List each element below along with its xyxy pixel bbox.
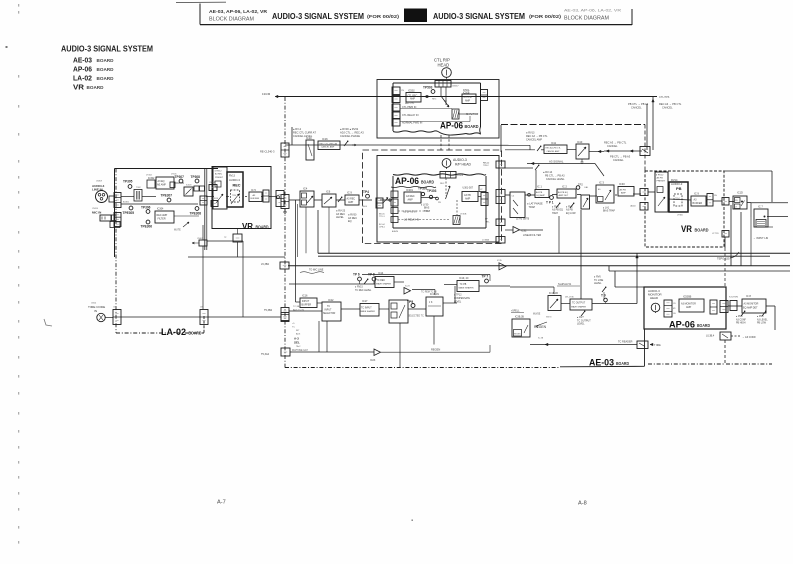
svg-text:IC33: IC33	[619, 182, 625, 186]
svg-text:REC CTL: REC CTL	[405, 103, 415, 105]
svg-text:T5,3A4: T5,3A4	[261, 353, 270, 356]
svg-text:BUFFER: BUFFER	[251, 198, 260, 200]
svg-text:TP303: TP303	[427, 189, 437, 193]
svg-text:BOARD: BOARD	[97, 58, 115, 63]
svg-text:IC 2B: IC 2B	[538, 338, 544, 340]
svg-text:PB LOW: PB LOW	[757, 323, 767, 325]
svg-text:WAVE SHAPER: WAVE SHAPER	[361, 310, 376, 313]
svg-text:REC: REC	[440, 183, 445, 185]
svg-text:MONITOR: MONITOR	[466, 112, 478, 116]
svg-text:IC302: IC302	[148, 177, 155, 180]
svg-text:EQ: EQ	[348, 220, 352, 223]
svg-text:BIAS: BIAS	[424, 207, 430, 210]
svg-text:CANCEL: CANCEL	[631, 106, 642, 110]
svg-text:PRESET: PRESET	[657, 181, 666, 183]
svg-text:IC23: IC23	[405, 286, 410, 288]
svg-text:CANCEL AMP: CANCEL AMP	[321, 146, 335, 149]
svg-text:PB HIGH: PB HIGH	[736, 323, 746, 325]
svg-text:A3E/M: A3E/M	[392, 230, 398, 233]
svg-text:IC22: IC22	[328, 298, 334, 302]
svg-text:TP308: TP308	[191, 175, 201, 179]
svg-text:AP-06: AP-06	[440, 120, 463, 131]
svg-text:R/P HEAD: R/P HEAD	[455, 163, 472, 167]
svg-text:LP306: LP306	[677, 215, 684, 217]
svg-text:EQ AMP: EQ AMP	[537, 194, 546, 197]
svg-text:BUFFER: BUFFER	[302, 303, 312, 306]
svg-text:SELECTED TC: SELECTED TC	[408, 316, 424, 318]
svg-text:TPB-2: TPB-2	[483, 165, 490, 167]
svg-text:IC501-: IC501-	[463, 90, 470, 92]
svg-text:IC 2: IC 2	[562, 185, 567, 189]
svg-text:LO RELAY IN: LO RELAY IN	[404, 219, 419, 222]
svg-text:VR: VR	[242, 221, 254, 231]
svg-text:REC: REC	[432, 99, 437, 101]
svg-text:REC A3 → PB CTL: REC A3 → PB CTL	[604, 141, 627, 145]
svg-text:CANCEL AMP: CANCEL AMP	[526, 138, 542, 141]
svg-text:LT30B: LT30B	[460, 214, 467, 216]
svg-text:IC 3: IC 3	[599, 181, 604, 185]
svg-text:REGEN: REGEN	[431, 348, 440, 352]
svg-text:AUDIO-3: AUDIO-3	[229, 178, 240, 182]
svg-text:A3 MONITOR: A3 MONITOR	[744, 303, 759, 306]
svg-text:BOARD: BOARD	[421, 180, 435, 185]
svg-text:AE AMP: AE AMP	[157, 184, 166, 187]
svg-text:TPE306: TPE306	[141, 225, 153, 229]
svg-text:A3 PB: A3 PB	[536, 191, 543, 194]
svg-text:AE-03, AP-06, LA-02, VR: AE-03, AP-06, LA-02, VR	[564, 9, 622, 13]
svg-text:J7305: J7305	[171, 174, 177, 176]
svg-text:T 9RE: T 9RE	[654, 344, 661, 347]
svg-text:● RV3: ● RV3	[757, 315, 764, 318]
svg-text:WAVE SHAPER: WAVE SHAPER	[459, 287, 475, 290]
svg-text:MU/TONE GAT: MU/TONE GAT	[292, 349, 308, 352]
svg-text:T5,3B4: T5,3B4	[264, 309, 273, 312]
svg-text:● RV8: ● RV8	[736, 315, 743, 318]
svg-text:IC3B,3B: IC3B,3B	[515, 316, 524, 319]
svg-text:T 9: T 9	[601, 294, 606, 298]
svg-text:IC16: IC16	[322, 137, 328, 141]
svg-text:TC: TC	[327, 306, 330, 308]
svg-text:CN309: CN309	[96, 181, 102, 183]
svg-text:TTD-1: TTD-1	[379, 216, 386, 218]
svg-text:● RV30 ● RV32: ● RV30 ● RV32	[340, 127, 359, 131]
svg-text:LEVEL: LEVEL	[577, 323, 585, 326]
svg-text:TP64: TP64	[232, 195, 236, 197]
svg-text:CTL PB: CTL PB	[464, 97, 472, 99]
svg-text:BOARD: BOARD	[616, 361, 630, 366]
svg-text:VR: VR	[73, 83, 85, 92]
svg-text:(FOR 00/02): (FOR 00/02)	[367, 14, 399, 20]
svg-text:BUFFER: BUFFER	[693, 202, 703, 205]
svg-text:EQ LOW: EQ LOW	[566, 212, 576, 215]
svg-text:TC OUTPUT: TC OUTPUT	[572, 303, 586, 305]
svg-text:EQ AMP DET: EQ AMP DET	[743, 306, 758, 309]
svg-text:J K: J K	[429, 301, 433, 304]
svg-text:LA-02: LA-02	[73, 74, 92, 83]
svg-text:A3 REC: A3 REC	[215, 173, 223, 176]
svg-text:LR30B: LR30B	[457, 175, 464, 177]
svg-text:U301-507: U301-507	[463, 187, 474, 190]
svg-text:K3 (TNP): K3 (TNP)	[729, 297, 738, 299]
svg-text:TP307: TP307	[175, 175, 185, 179]
svg-text:BOARD: BOARD	[465, 124, 480, 129]
svg-text:IC35: IC35	[497, 260, 502, 262]
svg-text:LEVEL: LEVEL	[594, 282, 602, 285]
svg-text:A3 SIGNAL: A3 SIGNAL	[549, 160, 564, 164]
svg-text:CPB-5: CPB-5	[379, 227, 386, 229]
svg-text:REGEN: REGEN	[534, 325, 547, 329]
svg-text:IC 9: IC 9	[694, 192, 699, 196]
svg-text:IC23: IC23	[370, 359, 376, 362]
svg-text:REC CTL+REC A3: REC CTL+REC A3	[320, 143, 338, 146]
svg-text:BOARD: BOARD	[697, 323, 711, 328]
svg-text:SEL: SEL	[294, 341, 300, 345]
svg-text:CANCEL AMP: CANCEL AMP	[547, 150, 560, 153]
svg-text:REC CTL CURR AT: REC CTL CURR AT	[293, 131, 316, 135]
svg-text:TC REC LEVEL: TC REC LEVEL	[355, 290, 372, 292]
svg-text:A3 CONF: A3 CONF	[736, 318, 747, 321]
svg-text:COMPENSATE: COMPENSATE	[454, 297, 470, 300]
svg-text:TP306: TP306	[141, 206, 151, 210]
svg-text:CTL REC: CTL REC	[408, 96, 418, 98]
svg-text:TRAP: TRAP	[529, 206, 536, 209]
svg-text:IN: IN	[94, 309, 97, 313]
svg-text:CANCEL: CANCEL	[607, 144, 618, 148]
svg-text:TP4: TP4	[363, 190, 369, 194]
svg-text:AMP: AMP	[348, 201, 354, 204]
svg-text:PB CTL → PB A3: PB CTL → PB A3	[628, 102, 649, 106]
svg-text:LA604: LA604	[630, 205, 635, 208]
svg-text:CTL/TP6: CTL/TP6	[659, 95, 670, 99]
svg-text:TC,3B4: TC,3B4	[293, 306, 301, 308]
svg-text:AUX: AUX	[296, 332, 301, 335]
svg-text:→ A3 CONF: → A3 CONF	[742, 336, 756, 339]
svg-text:AMP: AMP	[465, 99, 470, 102]
svg-text:SELECTOR: SELECTOR	[323, 313, 336, 315]
svg-text:CANCEL LEVEL: CANCEL LEVEL	[546, 178, 565, 181]
svg-text:L7,3B4: L7,3B4	[482, 240, 490, 242]
svg-text:● LY30: ● LY30	[421, 204, 429, 207]
svg-text:AP-06: AP-06	[73, 65, 92, 74]
svg-text:TPE305: TPE305	[123, 211, 135, 215]
svg-text:LINE IN: LINE IN	[92, 188, 103, 192]
svg-text:FILTER: FILTER	[158, 218, 166, 221]
svg-text:AUDIO-3 SIGNAL SYSTEM: AUDIO-3 SIGNAL SYSTEM	[61, 45, 153, 54]
svg-text:IC 1: IC 1	[537, 185, 542, 189]
svg-text:TR L: TR L	[485, 221, 491, 223]
svg-text:IC 8: IC 8	[746, 294, 751, 298]
svg-text:PB: PB	[676, 186, 682, 191]
svg-text:LP TP6: LP TP6	[712, 233, 719, 235]
svg-text:TO M/C LINE: TO M/C LINE	[309, 269, 324, 272]
svg-text:A3 PB: A3 PB	[657, 177, 664, 180]
svg-text:CANCEL: CANCEL	[662, 106, 673, 110]
svg-text:IC304: IC304	[157, 208, 164, 211]
svg-text:A-7: A-7	[217, 500, 226, 506]
svg-text:AUDIO-3 SIGNAL SYSTEM: AUDIO-3 SIGNAL SYSTEM	[272, 12, 364, 21]
svg-text:IC1D: IC1D	[737, 191, 743, 195]
svg-text:IC301: IC301	[406, 188, 413, 192]
svg-text:● LA1: ● LA1	[603, 207, 610, 210]
svg-text:IC16: IC16	[302, 294, 308, 298]
svg-text:IC19, 20: IC19, 20	[459, 277, 469, 280]
svg-text:BIAS TRAP: BIAS TRAP	[603, 210, 615, 213]
svg-text:LINEAR FIL TER: LINEAR FIL TER	[523, 234, 541, 237]
svg-text:PRESET: PRESET	[215, 177, 224, 179]
svg-text:TP305: TP305	[123, 180, 133, 184]
svg-text:SW 3: SW 3	[546, 317, 552, 319]
svg-text:BLOCK DIAGRAM: BLOCK DIAGRAM	[564, 16, 609, 22]
svg-text:● RV12: ● RV12	[656, 174, 664, 177]
svg-text:DE-1736: DE-1736	[565, 297, 574, 299]
svg-text:LA-02: LA-02	[161, 326, 186, 337]
svg-text:IC10: IC10	[306, 136, 312, 140]
svg-text:AMP: AMP	[410, 98, 415, 101]
svg-text:IC4: IC4	[303, 187, 308, 191]
svg-text:A3 LEVEL: A3 LEVEL	[757, 318, 768, 321]
svg-text:ADJ CTL → REC A3: ADJ CTL → REC A3	[340, 131, 364, 135]
svg-text:A3 MONITOR: A3 MONITOR	[681, 303, 696, 306]
svg-text:HEAD: HEAD	[650, 296, 658, 300]
svg-text:TC: TC	[292, 326, 295, 328]
svg-text:HEAD: HEAD	[438, 63, 450, 68]
svg-text:AUX TC IN: AUX TC IN	[293, 308, 304, 311]
svg-text:TestPoint 51: TestPoint 51	[558, 283, 572, 286]
svg-text:IC 5: IC 5	[251, 188, 256, 192]
svg-text:CANCEL: CANCEL	[613, 158, 624, 162]
svg-text:TRAP: TRAP	[424, 210, 431, 213]
svg-text:+5FELL: +5FELL	[511, 310, 520, 313]
svg-text:CN567: CN567	[452, 86, 459, 88]
svg-text:IC17: IC17	[362, 299, 368, 303]
svg-text:13U/M: 13U/M	[262, 92, 271, 96]
svg-text:TEPG 155: TEPG 155	[717, 257, 730, 261]
svg-text:IC1B,1B: IC1B,1B	[549, 292, 558, 295]
svg-text:AMP: AMP	[408, 198, 414, 201]
svg-text:IC303: IC303	[186, 185, 192, 187]
svg-text:→ INPUT LIN: → INPUT LIN	[753, 237, 768, 240]
svg-text:MU/SE: MU/SE	[533, 314, 541, 316]
svg-text:PB CTL → PB A3: PB CTL → PB A3	[610, 155, 631, 159]
svg-text:TC REC: TC REC	[377, 280, 386, 282]
svg-text:TP9: TP9	[407, 300, 413, 304]
svg-text:REC A3+PB CTL: REC A3+PB CTL	[546, 147, 562, 150]
svg-text:RE-CL340-3: RE-CL340-3	[260, 150, 275, 154]
svg-text:● RV-2: ● RV-2	[293, 127, 302, 131]
svg-text:TC PB: TC PB	[460, 284, 467, 286]
svg-text:TP64: TP64	[675, 198, 680, 200]
svg-text:M1: M1	[673, 308, 676, 310]
svg-text:BOARD: BOARD	[256, 225, 270, 230]
svg-text:CN304: CN304	[209, 182, 215, 184]
svg-text:CTL RELAY IN: CTL RELAY IN	[402, 114, 419, 117]
svg-text:IC 9: IC 9	[347, 191, 352, 195]
svg-text:BOARD: BOARD	[87, 85, 105, 90]
svg-text:TP 6: TP 6	[353, 273, 360, 277]
svg-text:VR: VR	[681, 224, 692, 234]
svg-text:AUDIO-3 SIGNAL SYSTEM: AUDIO-3 SIGNAL SYSTEM	[433, 12, 525, 21]
svg-text:● RV12: ● RV12	[215, 170, 223, 173]
svg-text:IC505B: IC505B	[683, 296, 692, 299]
svg-text:BOARD: BOARD	[695, 228, 710, 233]
svg-text:(FOR 00/02): (FOR 00/02)	[529, 14, 561, 20]
svg-text:AMP: AMP	[686, 306, 692, 309]
svg-text:CN305: CN305	[197, 238, 203, 240]
svg-text:TC READER: TC READER	[618, 341, 633, 344]
svg-text:AE-03, AP-06, LA-02, VR: AE-03, AP-06, LA-02, VR	[209, 9, 268, 14]
svg-text:BU306: BU306	[123, 202, 129, 204]
svg-text:WAVE SHAPER: WAVE SHAPER	[571, 305, 587, 308]
svg-text:L5,3B4: L5,3B4	[261, 263, 270, 266]
svg-text:IC32: IC32	[521, 229, 527, 233]
svg-text:REC: REC	[233, 184, 241, 188]
svg-text:HIGH: HIGH	[552, 212, 558, 215]
svg-text:A3 PB: A3 PB	[620, 189, 627, 192]
svg-text:AMP: AMP	[621, 192, 626, 195]
svg-text:RE04: RE04	[362, 206, 368, 208]
svg-text:MIC IN: MIC IN	[92, 210, 101, 214]
svg-text:IC1B,1N: IC1B,1N	[430, 293, 439, 296]
svg-text:A3 PB EQ: A3 PB EQ	[558, 191, 568, 194]
svg-text:LL-A3 3B/TB: LL-A3 3B/TB	[516, 218, 530, 221]
svg-text:NORMAL PWD IN: NORMAL PWD IN	[402, 122, 423, 125]
svg-text:A-8: A-8	[578, 501, 587, 507]
svg-text:CN BOB: CN BOB	[211, 198, 219, 200]
svg-text:TP 7: TP 7	[482, 275, 489, 279]
svg-text:BOARD: BOARD	[97, 76, 115, 81]
svg-text:BLOCK DIAGRAM: BLOCK DIAGRAM	[209, 16, 254, 22]
svg-text:TP503: TP503	[423, 86, 433, 90]
svg-text:REGEN: REGEN	[514, 333, 521, 335]
svg-text:AMP: AMP	[465, 197, 471, 200]
svg-text:AE-03: AE-03	[73, 56, 92, 65]
svg-text:BOARD: BOARD	[97, 67, 115, 72]
svg-text:TC INPUT: TC INPUT	[361, 308, 372, 310]
svg-text:L0,3B,4: L0,3B,4	[706, 335, 715, 338]
svg-text:T P 1: T P 1	[546, 201, 554, 205]
svg-text:LEVEL: LEVEL	[336, 216, 344, 219]
svg-text:CANCEL PHASE: CANCEL PHASE	[340, 134, 360, 138]
svg-text:IC6: IC6	[326, 190, 331, 194]
svg-text:REC A3 → PB CTL: REC A3 → PB CTL	[659, 102, 682, 106]
svg-text:AMP DET: AMP DET	[559, 194, 569, 197]
svg-text:AP-06: AP-06	[395, 175, 419, 186]
svg-text:AP-06: AP-06	[669, 319, 695, 330]
svg-text:WAVE SHAPER: WAVE SHAPER	[376, 283, 392, 286]
svg-text:TPE307: TPE307	[161, 194, 173, 198]
svg-text:AE-03: AE-03	[589, 357, 614, 368]
svg-text:MUTE: MUTE	[174, 229, 181, 232]
svg-text:● RV15: ● RV15	[355, 286, 363, 289]
svg-text:INPUT: INPUT	[325, 310, 332, 312]
svg-text:IC 7: IC 7	[758, 205, 763, 209]
svg-text:TPE308: TPE308	[190, 212, 202, 216]
svg-text:AUDIO-3: AUDIO-3	[453, 158, 467, 162]
svg-text:RV13: RV13	[229, 175, 236, 178]
